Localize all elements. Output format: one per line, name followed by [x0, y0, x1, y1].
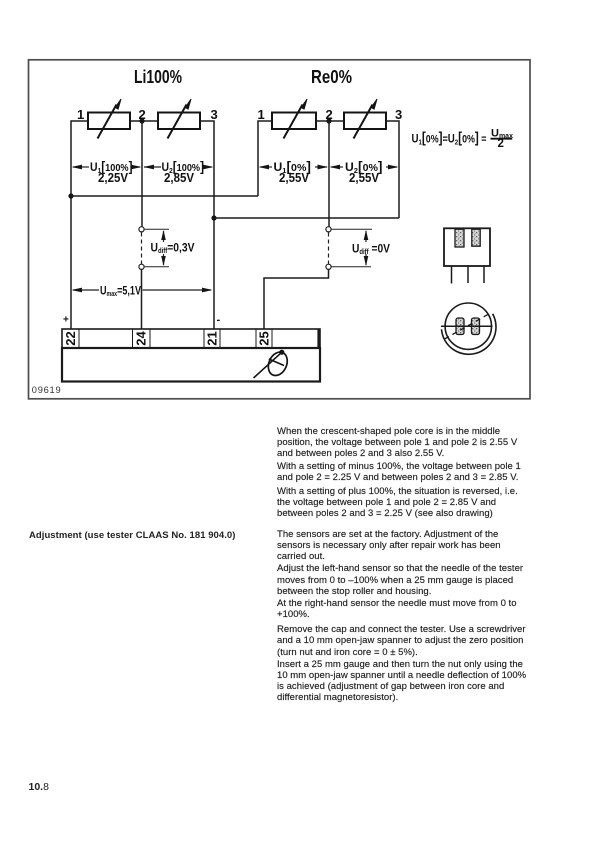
- svg-text:1: 1: [258, 107, 265, 122]
- wire pole3 lead right sensor: [386, 121, 399, 218]
- wire pole2 left sensor upper: [141, 121, 143, 227]
- wire pole2 right sensor to terminal 25: [264, 270, 329, 330]
- svg-text:2: 2: [498, 138, 504, 150]
- svg-text:2,85V: 2,85V: [164, 171, 195, 185]
- connector face view icon (crescent pole core): [441, 303, 496, 354]
- svg-text:1: 1: [77, 107, 84, 122]
- svg-text:Li100%: Li100%: [134, 67, 182, 87]
- svg-text:Udiff=0,3V: Udiff=0,3V: [151, 241, 195, 256]
- Umax 5,1V measurement arrow between + and - wires: [72, 283, 213, 298]
- measurement arrow U1 100% (between poles 1 and 2 left): [72, 159, 142, 185]
- magnetoresistor R1 (left sensor, poles 1-2): [88, 99, 130, 139]
- svg-text:22: 22: [63, 331, 78, 345]
- voltmeter dashed link (right): [328, 233, 330, 265]
- wire rail A connecting pole1 left to pole1 right: [71, 195, 258, 197]
- svg-text:U1[0%]=U2[0%] =: U1[0%]=U2[0%] =: [412, 131, 487, 147]
- svg-text:Udiff =0V: Udiff =0V: [352, 242, 390, 257]
- node 2 junction dot (right sensor): [326, 118, 331, 123]
- svg-text:-: -: [217, 314, 221, 326]
- svg-text:3: 3: [395, 107, 402, 122]
- body text right column: [277, 426, 526, 704]
- magnetoresistor R3 (right sensor, poles 1-2): [272, 99, 316, 139]
- wire pole2 left sensor lower to terminal 24: [141, 270, 143, 330]
- terminal strip lower housing: [62, 348, 320, 382]
- voltmeter terminal circle lower (left): [139, 264, 144, 269]
- voltmeter terminal circle upper (left): [139, 227, 144, 232]
- svg-text:+: +: [63, 315, 69, 326]
- junction dot rail A on pole1 wire: [68, 193, 73, 198]
- svg-text:Re0%: Re0%: [311, 67, 352, 87]
- wire pole2 right sensor upper: [328, 121, 330, 227]
- wire pole3 lead left sensor: [200, 121, 214, 329]
- terminal strip upper row: [62, 329, 320, 348]
- svg-text:21: 21: [205, 331, 220, 345]
- formula U1[0%]=U2[0%]=Umax/2: [412, 127, 514, 150]
- wire pole1 lead left sensor: [71, 121, 88, 329]
- Udiff 0,3V measurement (left): [145, 229, 195, 266]
- wire rail B connecting pole3 left to pole3 right: [214, 217, 399, 219]
- measurement arrow U2 0% (between poles 2 and 3 right): [330, 159, 399, 185]
- voltmeter terminal circle upper (right): [326, 227, 331, 232]
- Udiff 0V measurement (right): [332, 229, 391, 266]
- junction dot rail B on pole3 wire: [211, 215, 216, 220]
- schematic frame: [29, 60, 531, 399]
- left column bold label: [29, 530, 235, 541]
- node 2 junction dot (left sensor): [139, 118, 144, 123]
- magnetoresistor R2 (left sensor, poles 2-3): [158, 99, 200, 139]
- measurement arrow U1 0% (between poles 1 and 2 right): [259, 159, 329, 185]
- voltmeter terminal circle lower (right): [326, 264, 331, 269]
- svg-text:25: 25: [257, 331, 272, 345]
- wire between R1 and R2: [130, 120, 158, 122]
- svg-text:2,55V: 2,55V: [279, 171, 310, 185]
- page number: [29, 781, 49, 793]
- svg-text:2,55V: 2,55V: [349, 171, 380, 185]
- wire between R3 and R4: [316, 120, 344, 122]
- voltmeter dashed link (left): [141, 233, 143, 265]
- adjusting screw symbol: [254, 349, 291, 378]
- svg-text:3: 3: [211, 107, 218, 122]
- svg-text:09619: 09619: [32, 385, 62, 395]
- measurement arrow U2 100% (between poles 2 and 3 left): [144, 159, 214, 185]
- svg-text:24: 24: [134, 331, 149, 346]
- svg-text:Umax=5,1V: Umax=5,1V: [100, 283, 141, 298]
- wire pole1 lead right sensor: [258, 121, 272, 196]
- connector top view icon: [444, 228, 490, 283]
- svg-text:2,25V: 2,25V: [98, 171, 129, 185]
- magnetoresistor R4 (right sensor, poles 2-3): [344, 99, 386, 139]
